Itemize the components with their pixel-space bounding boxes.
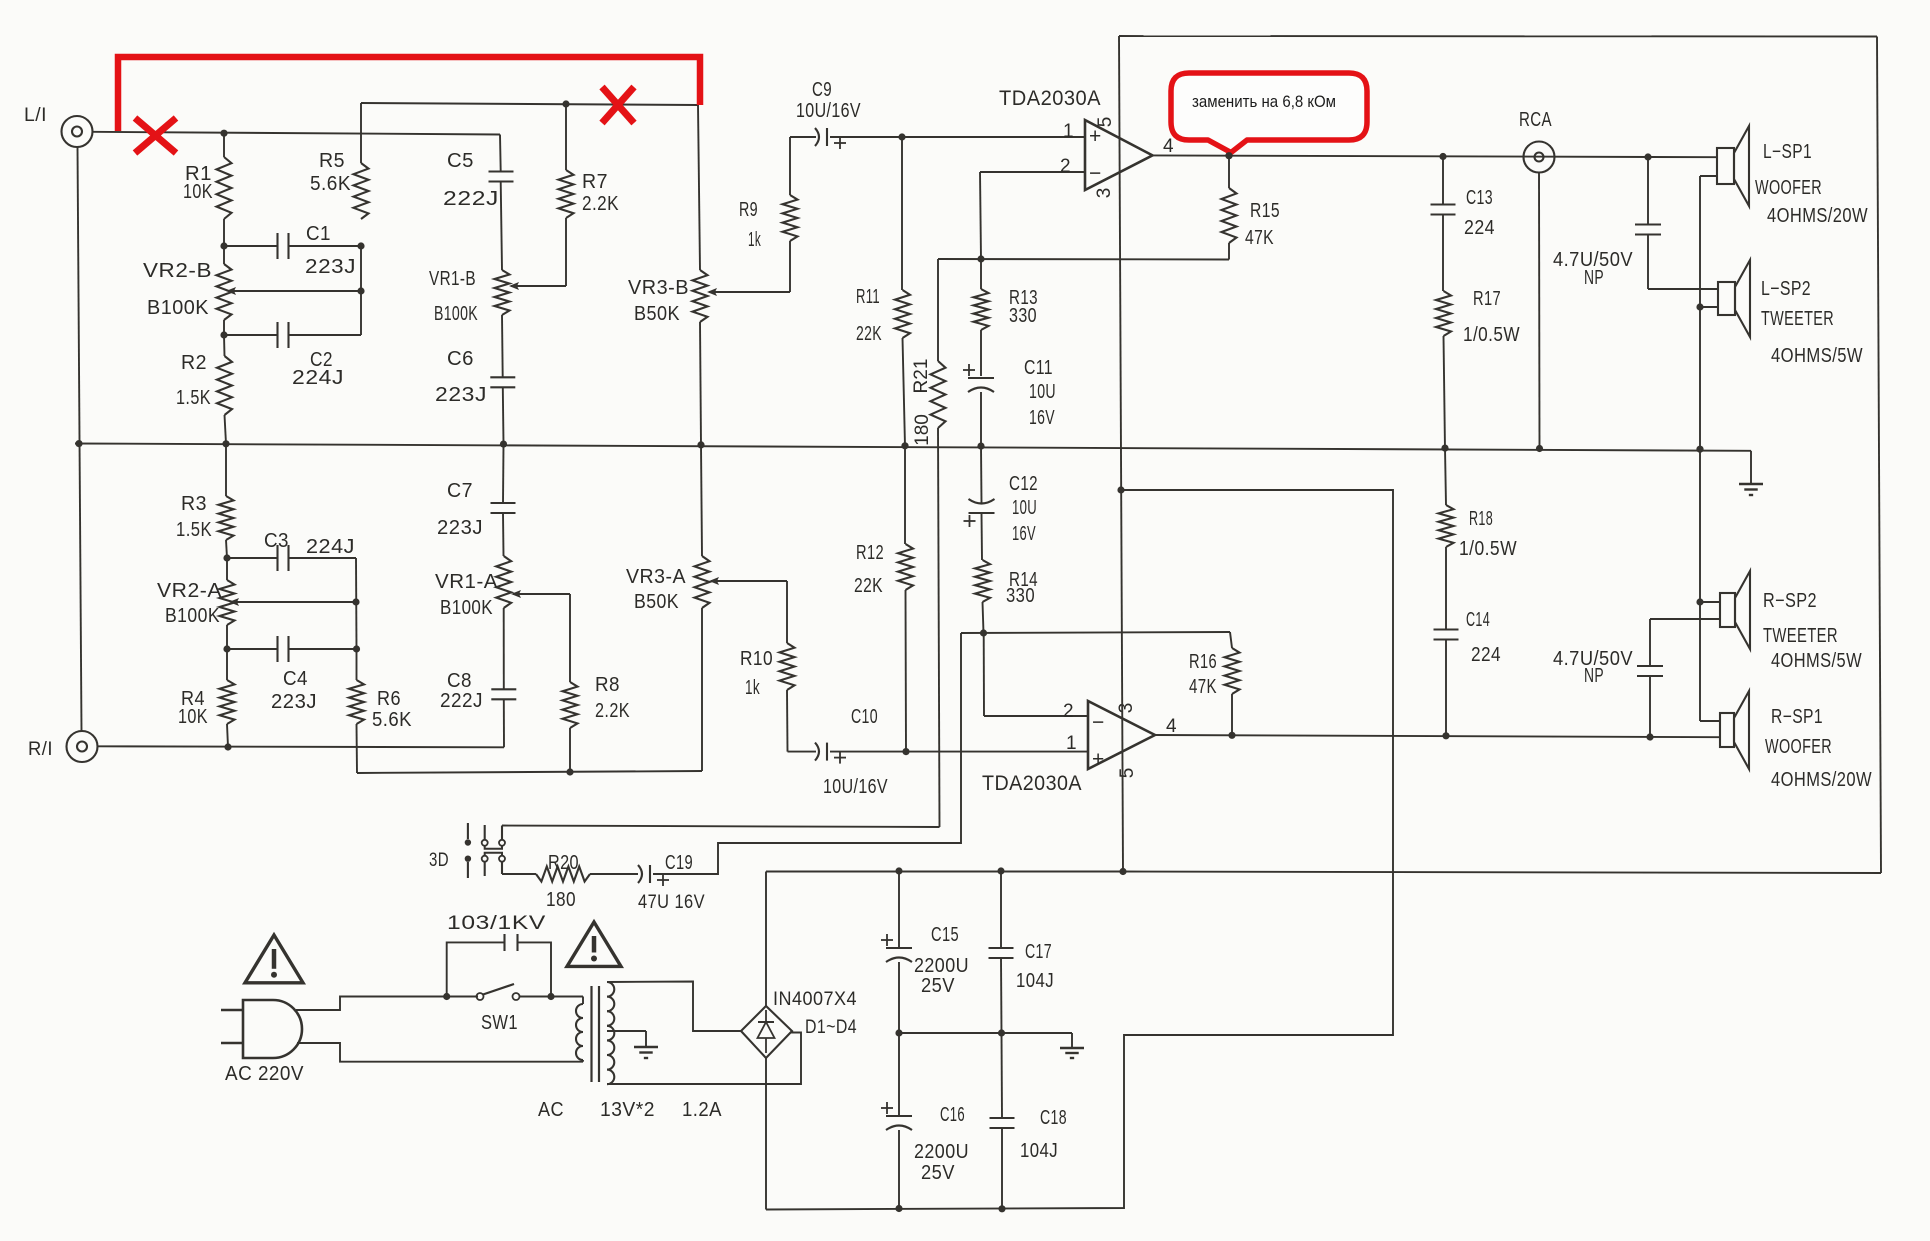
wire L input line (93, 130, 501, 137)
svg-text:4OHMS/5W: 4OHMS/5W (1771, 650, 1862, 672)
svg-text:10K: 10K (183, 181, 213, 203)
node output R / crossover cap junction (1646, 733, 1653, 740)
svg-text:224: 224 (1464, 217, 1495, 239)
svg-text:C5: C5 (447, 150, 474, 172)
svg-text:R12: R12 (856, 542, 884, 564)
svg-text:заменить на 6,8 кОм: заменить на 6,8 кОм (1192, 93, 1336, 111)
svg-text:4OHMS/20W: 4OHMS/20W (1771, 769, 1872, 791)
svg-text:R15: R15 (1250, 200, 1280, 222)
capacitor C17 (104J) (989, 871, 1055, 1033)
svg-text:AC 220V: AC 220V (225, 1063, 304, 1085)
resistor R4 (178, 649, 235, 747)
resistor R7 (559, 104, 620, 286)
svg-text:10U: 10U (1012, 497, 1037, 519)
svg-text:C19: C19 (665, 852, 693, 874)
wire R5 bottom column (360, 246, 362, 335)
svg-text:4: 4 (1166, 716, 1177, 737)
svg-text:222J: 222J (443, 188, 499, 210)
wire R20 to C19 (590, 873, 638, 875)
svg-text:R−SP1: R−SP1 (1771, 706, 1823, 728)
svg-text:R−SP2: R−SP2 (1763, 590, 1817, 612)
svg-text:25V: 25V (921, 1162, 955, 1184)
svg-text:C17: C17 (1025, 941, 1052, 963)
ground symbol (bus right end) (1739, 451, 1763, 495)
node R1/C1/VR2-B junction (220, 242, 227, 249)
svg-text:B50K: B50K (634, 591, 679, 613)
node +rail/C17 junction (997, 867, 1004, 874)
capacitor C12 (10U/16V electrolytic) (964, 446, 1039, 560)
warning triangle (transformer) (567, 922, 621, 966)
svg-text:C3: C3 (264, 530, 289, 552)
svg-text:TWEETER: TWEETER (1761, 308, 1834, 330)
capacitor C19 (47U 16V electrolytic) (638, 852, 705, 913)
svg-text:VR3-A: VR3-A (626, 566, 686, 588)
capacitor C18 (104J) (990, 1033, 1068, 1208)
svg-text:VR2-A: VR2-A (157, 580, 222, 602)
svg-text:IN4007X4: IN4007X4 (773, 989, 857, 1010)
ground symbol (mid rail) (1060, 1033, 1084, 1058)
svg-text:1: 1 (1063, 121, 1074, 142)
wire pin2 of U1 to feedback node (980, 172, 1085, 259)
resistor R3 (176, 444, 234, 558)
svg-text:WOOFER: WOOFER (1755, 177, 1822, 199)
node bus-C6 junction (500, 441, 507, 448)
red annotation X mark 1 (135, 118, 176, 153)
node U1 feedback junction (977, 255, 984, 262)
svg-text:C8: C8 (447, 670, 472, 692)
wire jack ground bus vertical (78, 147, 82, 731)
potentiometer VR2-B (143, 246, 361, 335)
connector R/I input jack (28, 731, 98, 762)
svg-text:R5: R5 (319, 150, 345, 172)
speaker L-SP2 (tweeter) (1718, 260, 1863, 367)
svg-text:R20: R20 (548, 852, 579, 874)
potentiometer VR3-A (626, 445, 787, 771)
wire VR3-B top riser (698, 105, 700, 270)
wire +V box right (1877, 37, 1881, 874)
svg-text:4OHMS/5W: 4OHMS/5W (1771, 345, 1863, 367)
svg-text:47K: 47K (1245, 227, 1274, 249)
svg-text:−: − (1092, 711, 1105, 734)
wire ground bus (75, 444, 1751, 451)
capacitor C8 (440, 670, 516, 712)
node VR2-A wiper junction (352, 598, 359, 605)
svg-text:C1: C1 (306, 223, 331, 245)
svg-text:L/I: L/I (24, 105, 47, 126)
node R8 bottom junction (566, 768, 573, 775)
switch 3D (top pole) (429, 823, 505, 871)
wire -V staircase (766, 490, 1393, 1210)
wire 3D bottom pole to R20 (502, 873, 536, 875)
svg-text:180: 180 (912, 414, 933, 446)
svg-text:5: 5 (1095, 117, 1116, 128)
wire feedback horizontal (938, 258, 1229, 261)
svg-text:1/0.5W: 1/0.5W (1459, 538, 1517, 560)
node L-SP2 lower terminal junction (1696, 303, 1718, 310)
resistor R10 (740, 581, 795, 752)
svg-text:R11: R11 (856, 286, 880, 308)
wire U2 output line (1155, 735, 1720, 737)
svg-text:VR2-B: VR2-B (143, 260, 212, 282)
node -V takeoff junction (1117, 486, 1124, 493)
svg-text:5.6K: 5.6K (372, 709, 412, 731)
node C10/R12 junction (902, 748, 909, 755)
svg-text:C18: C18 (1040, 1107, 1067, 1129)
svg-text:25V: 25V (921, 975, 955, 997)
svg-text:22K: 22K (854, 575, 883, 597)
svg-text:+: + (1089, 125, 1102, 148)
svg-text:R10: R10 (740, 648, 773, 670)
svg-text:B100K: B100K (440, 597, 493, 619)
svg-text:330: 330 (1009, 305, 1037, 327)
wire R7 to VR1-B wiper (509, 282, 566, 290)
wire 3D top pole to R21 bottom (502, 826, 940, 828)
op-amp U2 TDA2030A (right channel) (982, 701, 1177, 795)
svg-text:1k: 1k (745, 677, 760, 699)
svg-text:10U/16V: 10U/16V (796, 100, 861, 122)
svg-text:VR1-B: VR1-B (429, 268, 476, 290)
node C4 left junction (223, 645, 230, 652)
capacitor C14 (1434, 609, 1502, 736)
capacitor C6 (435, 348, 515, 444)
wire R10 corner (788, 751, 817, 753)
wire corner into C8 (503, 700, 505, 748)
svg-text:C10: C10 (851, 706, 878, 728)
capacitor 4.7U/50V NP (R crossover) (1553, 619, 1720, 737)
svg-text:C11: C11 (1024, 357, 1053, 379)
wire secondary bottom to bridge (607, 1033, 801, 1085)
resistor R8 (563, 594, 631, 772)
svg-text:222J: 222J (440, 690, 483, 712)
svg-text:16V: 16V (1012, 523, 1036, 545)
svg-text:C16: C16 (940, 1104, 965, 1126)
svg-text:104J: 104J (1016, 970, 1054, 992)
svg-text:R7: R7 (582, 171, 608, 193)
capacitor 4.7U/50V NP (L crossover) (1553, 157, 1718, 289)
node bus-RCA junction (1536, 445, 1543, 452)
svg-text:C9: C9 (812, 79, 832, 101)
resistor R6 (349, 649, 412, 773)
svg-text:4OHMS/20W: 4OHMS/20W (1767, 205, 1868, 227)
node mid-rail/C17 junction (998, 1029, 1005, 1036)
capacitor C11 (10U/16V electrolytic) (963, 330, 1056, 446)
svg-text:WOOFER: WOOFER (1765, 736, 1832, 758)
speaker R-SP2 (tweeter) (1720, 571, 1862, 672)
wire pin2 of U2 to feedback node (984, 633, 1088, 716)
svg-text:B100K: B100K (165, 605, 220, 627)
svg-text:R6: R6 (377, 688, 401, 710)
red annotation bracket (118, 57, 700, 131)
svg-text:TDA2030A: TDA2030A (999, 87, 1101, 110)
svg-text:223J: 223J (305, 256, 356, 278)
node mid-rail/C15 junction (895, 1029, 902, 1036)
svg-text:1.5K: 1.5K (176, 519, 212, 541)
node bus-VR3 junction (697, 441, 704, 448)
capacitor C10 (10U/16V electrolytic) (815, 706, 906, 798)
svg-text:R8: R8 (595, 674, 620, 696)
svg-text:47U 16V: 47U 16V (638, 892, 705, 913)
wire lower treble line (357, 771, 702, 773)
node bus-R17 junction (1441, 445, 1448, 452)
capacitor C15 (2200U/25V electrolytic) (881, 871, 969, 1033)
svg-text:223J: 223J (271, 691, 317, 713)
svg-text:R16: R16 (1189, 651, 1217, 673)
resistor R18 (1439, 448, 1518, 629)
svg-text:C12: C12 (1009, 473, 1038, 495)
svg-text:1.2A: 1.2A (682, 1099, 722, 1121)
node C9/R11 junction (898, 133, 905, 140)
wire 0V mid rail (899, 1032, 1072, 1034)
resistor R14 (975, 560, 1038, 633)
svg-text:VR3-B: VR3-B (628, 277, 689, 299)
svg-text:C13: C13 (1466, 187, 1493, 209)
resistor R16 (1189, 632, 1240, 735)
resistor R12 (854, 446, 913, 752)
wire speaker return vertical (L) (1699, 176, 1701, 721)
capacitor C1 (224, 223, 361, 278)
node R3/C3/VR2-A junction (223, 554, 230, 561)
resistor R20 (180) (536, 852, 590, 911)
svg-text:1/0.5W: 1/0.5W (1463, 324, 1520, 346)
svg-text:47K: 47K (1189, 676, 1217, 698)
svg-text:+: + (1092, 748, 1105, 771)
connector L/I input jack (24, 105, 93, 147)
svg-text:3: 3 (1116, 703, 1137, 714)
bridge rectifier D1-D4 (IN4007X4) (741, 989, 857, 1058)
wire +V box bottom (1123, 872, 1881, 874)
wire bridge + output (765, 872, 767, 1007)
wire R-SP1 upper terminal (1700, 720, 1720, 722)
connector RCA output jack (1519, 109, 1555, 173)
wire RCA to ground bus (1538, 173, 1541, 451)
svg-text:3D: 3D (429, 850, 449, 871)
svg-text:R17: R17 (1473, 288, 1501, 310)
capacitor C2 (224, 322, 361, 389)
node bus-C11 junction (977, 443, 984, 450)
wire R input line (98, 743, 505, 750)
svg-text:B50K: B50K (634, 303, 680, 325)
svg-text:C6: C6 (447, 348, 474, 370)
svg-text:R9: R9 (739, 199, 758, 221)
svg-text:3: 3 (1094, 188, 1115, 199)
node C2 left junction (220, 331, 227, 338)
svg-text:223J: 223J (435, 384, 487, 406)
wire R9 top corner (790, 136, 816, 138)
wire plug bottom to transformer (297, 1043, 583, 1062)
node output R / R16 junction (1228, 732, 1235, 739)
svg-text:VR1-A: VR1-A (435, 571, 498, 593)
wire L-SP1 lower terminal (1700, 175, 1717, 177)
node C4 right junction (353, 645, 360, 652)
node -rail/C16 junction (895, 1205, 902, 1212)
wire corner into C5 (499, 135, 502, 172)
node output L / R15 junction (1225, 152, 1232, 159)
node output R / C14 junction (1442, 732, 1449, 739)
svg-text:104J: 104J (1020, 1140, 1058, 1162)
svg-text:2200U: 2200U (914, 1141, 969, 1163)
wire secondary center tap (607, 1030, 646, 1032)
transformer T1 primary coil (576, 997, 583, 1062)
wire C19 riser to lower feedback (653, 633, 961, 874)
resistor R11 (856, 137, 910, 446)
svg-text:−: − (1089, 162, 1102, 185)
svg-text:NP: NP (1584, 267, 1604, 289)
transformer T1 secondary coil (538, 982, 722, 1121)
wire lower feedback horizontal (961, 632, 1230, 633)
wire VR1-B to C6 (501, 315, 504, 377)
node U2 feedback junction (980, 629, 987, 636)
resistor R21 (180) (911, 259, 946, 827)
svg-text:10U: 10U (1029, 381, 1056, 403)
svg-text:2.2K: 2.2K (582, 193, 619, 215)
svg-text:22K: 22K (856, 323, 882, 345)
ground symbol (center tap) (634, 1031, 658, 1058)
node bus-R2 junction (222, 440, 229, 447)
svg-text:B100K: B100K (147, 297, 209, 319)
svg-text:SW1: SW1 (481, 1012, 518, 1034)
node bus-R11 junction (901, 442, 908, 449)
svg-text:2200U: 2200U (914, 955, 969, 977)
svg-text:10K: 10K (178, 706, 208, 728)
capacitor C16 (2200U/25V electrolytic) (881, 1033, 969, 1208)
svg-text:R/I: R/I (28, 739, 53, 760)
capacitor 103/1KV snubber (443, 913, 551, 1000)
svg-text:224: 224 (1471, 644, 1501, 666)
svg-text:D1~D4: D1~D4 (805, 1017, 857, 1038)
wire VR1-A to C8 (503, 608, 505, 689)
svg-text:C15: C15 (931, 924, 959, 946)
potentiometer VR1-B (429, 268, 510, 325)
node -rail/C18 junction (998, 1205, 1005, 1212)
wire U1 output line (1153, 155, 1718, 157)
resistor R15 (1222, 156, 1281, 260)
resistor R17 (1436, 288, 1520, 450)
wire C9 to pin1 of U1 (902, 136, 1085, 138)
svg-text:TDA2030A: TDA2030A (982, 772, 1082, 795)
speaker R-SP1 (woofer) (1720, 691, 1872, 791)
node R-SP2 upper terminal junction (1696, 598, 1720, 605)
capacitor C13 (1431, 157, 1496, 292)
switch SW1 (477, 984, 520, 1034)
svg-text:L−SP2: L−SP2 (1761, 278, 1811, 300)
svg-text:10U/16V: 10U/16V (823, 776, 888, 798)
svg-text:1k: 1k (748, 229, 761, 251)
resistor R5 (310, 103, 369, 219)
wire +V box top (1119, 35, 1877, 38)
wire + rail (766, 871, 1123, 873)
node +rail/C15 junction (895, 867, 902, 874)
speaker L-SP1 (woofer) (1717, 126, 1868, 227)
resistor R1 (183, 133, 232, 246)
wire C10 to pin1 of U2 (906, 751, 1088, 753)
red annotation X mark 2 (602, 87, 634, 123)
svg-text:103/1KV: 103/1KV (447, 913, 546, 934)
node +rail/box junction (1119, 868, 1126, 875)
svg-text:NP: NP (1584, 665, 1604, 687)
svg-text:TWEETER: TWEETER (1763, 625, 1838, 647)
op-amp U1 TDA2030A (left channel) (999, 87, 1174, 198)
svg-text:330: 330 (1006, 585, 1035, 607)
node output L / crossover cap junction (1644, 153, 1651, 160)
node bus-jack junction (75, 440, 82, 447)
svg-text:224J: 224J (306, 536, 355, 558)
svg-text:C14: C14 (1466, 609, 1490, 631)
wire supply vertical through op-amps (1119, 36, 1123, 872)
svg-text:C4: C4 (283, 668, 308, 690)
svg-text:R21: R21 (911, 359, 932, 394)
wire secondary top to bridge (607, 982, 741, 1032)
node VR2-B wiper junction (357, 287, 364, 294)
capacitor C3 (227, 530, 356, 571)
wire plug top to switch (296, 997, 478, 1011)
resistor R9 (739, 137, 798, 292)
svg-text:2: 2 (1063, 701, 1074, 722)
potentiometer VR2-A (157, 558, 356, 649)
capacitor C5 (443, 150, 514, 270)
transformer T1 core (592, 986, 600, 1082)
svg-text:C7: C7 (447, 480, 473, 502)
wire top bass line y=103 (361, 100, 698, 107)
svg-text:16V: 16V (1029, 407, 1055, 429)
potentiometer VR3-B (628, 270, 790, 445)
svg-text:L−SP1: L−SP1 (1763, 141, 1812, 163)
node bus-speaker-return junction (1696, 446, 1703, 453)
svg-text:B100K: B100K (434, 303, 478, 325)
svg-text:180: 180 (546, 889, 576, 911)
resistor R2 (176, 335, 232, 444)
svg-text:R3: R3 (181, 493, 207, 515)
svg-text:R2: R2 (181, 352, 207, 374)
svg-text:223J: 223J (437, 517, 483, 539)
svg-text:2: 2 (1060, 156, 1071, 177)
capacitor C9 (10U/16V electrolytic) (796, 79, 902, 149)
svg-text:5.6K: 5.6K (310, 173, 351, 195)
red annotation speech bubble (1171, 73, 1367, 159)
wire switch to transformer (520, 993, 584, 1000)
svg-text:1: 1 (1066, 733, 1077, 754)
capacitor C7 (437, 444, 516, 556)
wire bridge - output (765, 1058, 767, 1210)
wire R6 top column (355, 558, 358, 649)
svg-text:2.2K: 2.2K (595, 700, 630, 722)
svg-text:5: 5 (1117, 768, 1138, 779)
resistor R13 (974, 259, 1039, 330)
switch 3D (bottom pole) (465, 853, 505, 878)
warning triangle (mains) (245, 935, 303, 983)
svg-text:4: 4 (1163, 136, 1174, 157)
svg-text:R18: R18 (1469, 508, 1493, 530)
node C1 right junction (357, 242, 364, 249)
potentiometer VR1-A (435, 556, 570, 619)
svg-text:AC: AC (538, 1099, 564, 1121)
svg-text:RCA: RCA (1519, 109, 1552, 131)
svg-text:13V*2: 13V*2 (600, 1099, 655, 1121)
svg-text:1.5K: 1.5K (176, 387, 211, 409)
node output L / C13 junction (1439, 153, 1446, 160)
connector AC mains plug (221, 1000, 304, 1085)
capacitor C4 (227, 636, 357, 713)
svg-text:224J: 224J (292, 367, 344, 389)
